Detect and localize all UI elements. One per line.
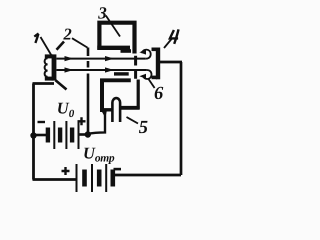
- wire Uo row right: [80, 133, 89, 136]
- accelerator grid 2 dashes: [87, 48, 90, 135]
- cathode top cap: [45, 54, 53, 58]
- beam 2 reflection hook: [142, 70, 152, 79]
- label 3 leader: [106, 16, 120, 37]
- resonator box 3: [99, 23, 134, 54]
- beam 1 arrowhead a: [65, 56, 74, 61]
- bottom box left wall: [100, 79, 104, 113]
- label 6 leader: [148, 78, 155, 88]
- minus U0: [38, 121, 46, 123]
- emission ray upper: [57, 42, 65, 50]
- label 5 leader: [127, 117, 139, 124]
- plus U0: [78, 117, 86, 125]
- plus Uotr: [62, 167, 70, 175]
- bottom box bottom-right edge: [121, 106, 140, 110]
- repeller 4 bar: [156, 48, 160, 80]
- wire right riser: [180, 62, 183, 175]
- junction dot A: [30, 132, 36, 138]
- battery U0 plates: [48, 121, 79, 149]
- upper gap plate: [121, 49, 132, 53]
- minus Uotr: [114, 168, 122, 171]
- beam 2 arrowhead b: [105, 67, 114, 72]
- lower gap plate: [114, 72, 129, 75]
- wire to resonator riser: [87, 110, 105, 134]
- wire repeller to riser: [160, 61, 182, 64]
- label 4 leader: [164, 39, 172, 48]
- svg-text:3: 3: [97, 4, 107, 23]
- label 1 leader: [41, 37, 52, 56]
- cavity grid dashes 6: [134, 56, 137, 79]
- svg-text:2: 2: [63, 25, 72, 44]
- beam 2 arrowhead a: [65, 67, 74, 72]
- label 1: [34, 34, 38, 44]
- beam 1 arrowhead b: [105, 56, 114, 61]
- svg-text:6: 6: [154, 84, 164, 104]
- emission ray lower: [56, 80, 67, 89]
- cathode bottom cap: [45, 77, 53, 81]
- repeller 4 bottom cap: [152, 76, 158, 80]
- junction dot B: [85, 131, 91, 137]
- wire bottom left: [33, 178, 76, 181]
- heater coil: [45, 58, 48, 77]
- label 4: [170, 29, 179, 44]
- repeller 4 top cap: [152, 47, 158, 51]
- wire Uotr right: [115, 174, 181, 177]
- beam line 1: [57, 58, 146, 60]
- coupling loop 5: [112, 98, 120, 122]
- cathode bar: [52, 54, 57, 80]
- beam 1 reflection hook: [141, 50, 151, 59]
- beam 1 return arrowhead: [139, 50, 146, 55]
- wire Uo row left: [34, 134, 47, 137]
- beam 2 return arrowhead: [139, 74, 146, 79]
- wire left vertical: [32, 84, 35, 180]
- bottom box right wall: [137, 80, 140, 110]
- battery Uotr plates: [77, 164, 113, 192]
- beam line 2: [57, 69, 147, 71]
- wire cathode horizontal: [33, 82, 55, 85]
- resonator box bottom edge: [97, 46, 130, 50]
- bottom box bottom-left edge: [100, 108, 112, 111]
- label 2 leader: [72, 38, 88, 47]
- bottom box top bar: [100, 78, 131, 82]
- svg-text:5: 5: [139, 118, 148, 138]
- bottom box wall taper: [102, 111, 107, 118]
